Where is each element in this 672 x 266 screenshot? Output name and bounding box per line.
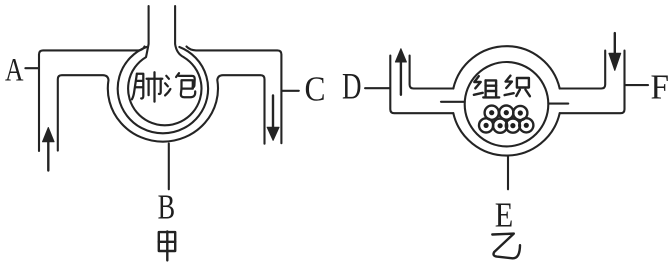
dash from C (282, 90, 299, 92)
left stub (capillary divider) (441, 101, 465, 103)
right inner tube wall (560, 51, 606, 89)
up arrow (blood in, left of 甲) (43, 128, 55, 171)
svg-text:F: F (651, 67, 670, 106)
left outer tube wall (390, 56, 453, 114)
dash from F (626, 84, 649, 86)
tissue outer capillary ring: bottom arc (453, 113, 559, 155)
down arrow (right of 乙) (609, 33, 621, 70)
right stub (capillary divider) (549, 103, 569, 105)
inner cup arc (wall hugging bulb) (118, 47, 208, 133)
down arrow (blood out, right of 甲) (267, 95, 279, 140)
word 甲 (hand-drawn strokes) (159, 232, 175, 261)
tissue cells: 7 small circles with dots (479, 106, 533, 133)
svg-text:E: E (495, 196, 514, 235)
svg-text:C: C (305, 70, 326, 109)
word 肺 (hand-drawn strokes) (132, 72, 162, 101)
capillary outer wall left: vertical limb + top wall merging into flask flare (39, 47, 145, 152)
capillary outer wall right: top wall + vertical limb (187, 47, 282, 144)
dash from A (25, 67, 38, 69)
pointer line to E (507, 156, 509, 189)
tissue outer capillary ring: top arc (453, 46, 559, 88)
svg-text:D: D (342, 66, 362, 107)
up arrow (left of 乙) (395, 49, 406, 95)
word 组 (hand-drawn strokes) (474, 76, 499, 97)
tissue inner circle (465, 62, 549, 146)
pointer line to B (168, 144, 170, 190)
word 乙 (hand-drawn stroke) (492, 234, 520, 259)
right outer tube wall (560, 51, 625, 114)
alveolus flask (neck + bulb) (128, 6, 201, 125)
svg-text:B: B (158, 187, 176, 226)
svg-text:A: A (5, 52, 24, 88)
left inner tube wall (410, 56, 454, 89)
dash from D (365, 87, 389, 89)
word 织 (hand-drawn strokes) (505, 76, 530, 97)
capillary inner wall left + outer cup arc under bulb + inner wall right (58, 75, 265, 150)
word 泡 (hand-drawn strokes) (165, 73, 195, 97)
